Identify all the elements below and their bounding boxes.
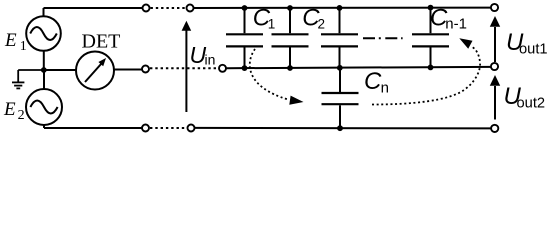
- dashed arc arrow Cn to Cn-1: [372, 38, 480, 104]
- wire bottom rail main: [195, 127, 491, 129]
- dashed arc arrow C1 to Cn: [250, 49, 304, 105]
- source E1: [26, 16, 61, 51]
- svg-text:1: 1: [20, 39, 27, 54]
- capacitor C1: [226, 8, 263, 68]
- svg-text:n: n: [381, 79, 389, 96]
- arrow Uout1: [490, 16, 500, 62]
- capacitor C3 unlabeled: [321, 8, 358, 68]
- svg-text:E: E: [3, 99, 16, 120]
- wire E1 bottom to junction: [43, 51, 45, 70]
- terminal top-left: [143, 5, 150, 12]
- svg-text:out2: out2: [517, 96, 546, 112]
- ground: [12, 70, 44, 88]
- junction dot middle C2: [287, 65, 293, 71]
- svg-text:2: 2: [18, 108, 25, 123]
- junction dot top C1: [242, 5, 248, 11]
- wire E1 top to top rail: [43, 8, 45, 16]
- capacitor C2: [272, 8, 309, 68]
- wire middle rail main: [226, 67, 491, 68]
- junction dot middle Cn-1: [428, 65, 434, 71]
- wire E2 top to junction: [43, 70, 45, 89]
- junction dot bottom Cn: [337, 125, 343, 131]
- wire E2 bottom to bottom rail: [43, 125, 45, 128]
- junction dot middle C1: [242, 65, 248, 71]
- svg-text:n-1: n-1: [445, 15, 467, 32]
- junction dot top C2: [287, 5, 293, 11]
- junction dot top C3: [337, 5, 343, 11]
- detector needle arrowhead: [98, 58, 106, 66]
- svg-text:C: C: [364, 68, 382, 95]
- detector U1 DET: [76, 52, 114, 90]
- svg-text:E: E: [4, 30, 17, 51]
- capacitor Cn-1: [412, 8, 449, 68]
- terminal bottom-left: [142, 125, 149, 132]
- terminal output bottom: [491, 125, 498, 132]
- terminal bottom-mid: [188, 125, 195, 132]
- terminal middle-left: [142, 66, 149, 73]
- svg-text:DET: DET: [82, 31, 121, 53]
- continuation dash-dot: [363, 37, 403, 39]
- svg-text:1: 1: [268, 16, 276, 31]
- capacitor Cn: [322, 68, 359, 128]
- wire top rail left: [44, 7, 143, 9]
- junction dot top Cn-1: [428, 5, 434, 11]
- svg-text:2: 2: [318, 16, 326, 31]
- wire junction to detector: [44, 69, 76, 71]
- terminal output middle: [491, 63, 498, 70]
- wire dotted bottom: [150, 127, 187, 129]
- svg-text:in: in: [205, 52, 216, 68]
- terminal output top: [491, 4, 498, 11]
- svg-text:out1: out1: [519, 42, 548, 58]
- wire dotted middle: [150, 67, 219, 69]
- source E2: [26, 89, 62, 125]
- terminal input Uin: [219, 65, 226, 72]
- arrow Uin: [182, 21, 192, 112]
- junction dot middle Cn: [337, 65, 343, 71]
- wire top rail main: [194, 7, 491, 9]
- wire detector to terminal: [114, 69, 142, 71]
- junction dot sources: [41, 67, 47, 73]
- arrow Uout2: [490, 75, 500, 120]
- terminal top-mid: [187, 5, 194, 12]
- wire bottom rail left: [44, 127, 142, 129]
- wire dotted top: [151, 7, 187, 9]
